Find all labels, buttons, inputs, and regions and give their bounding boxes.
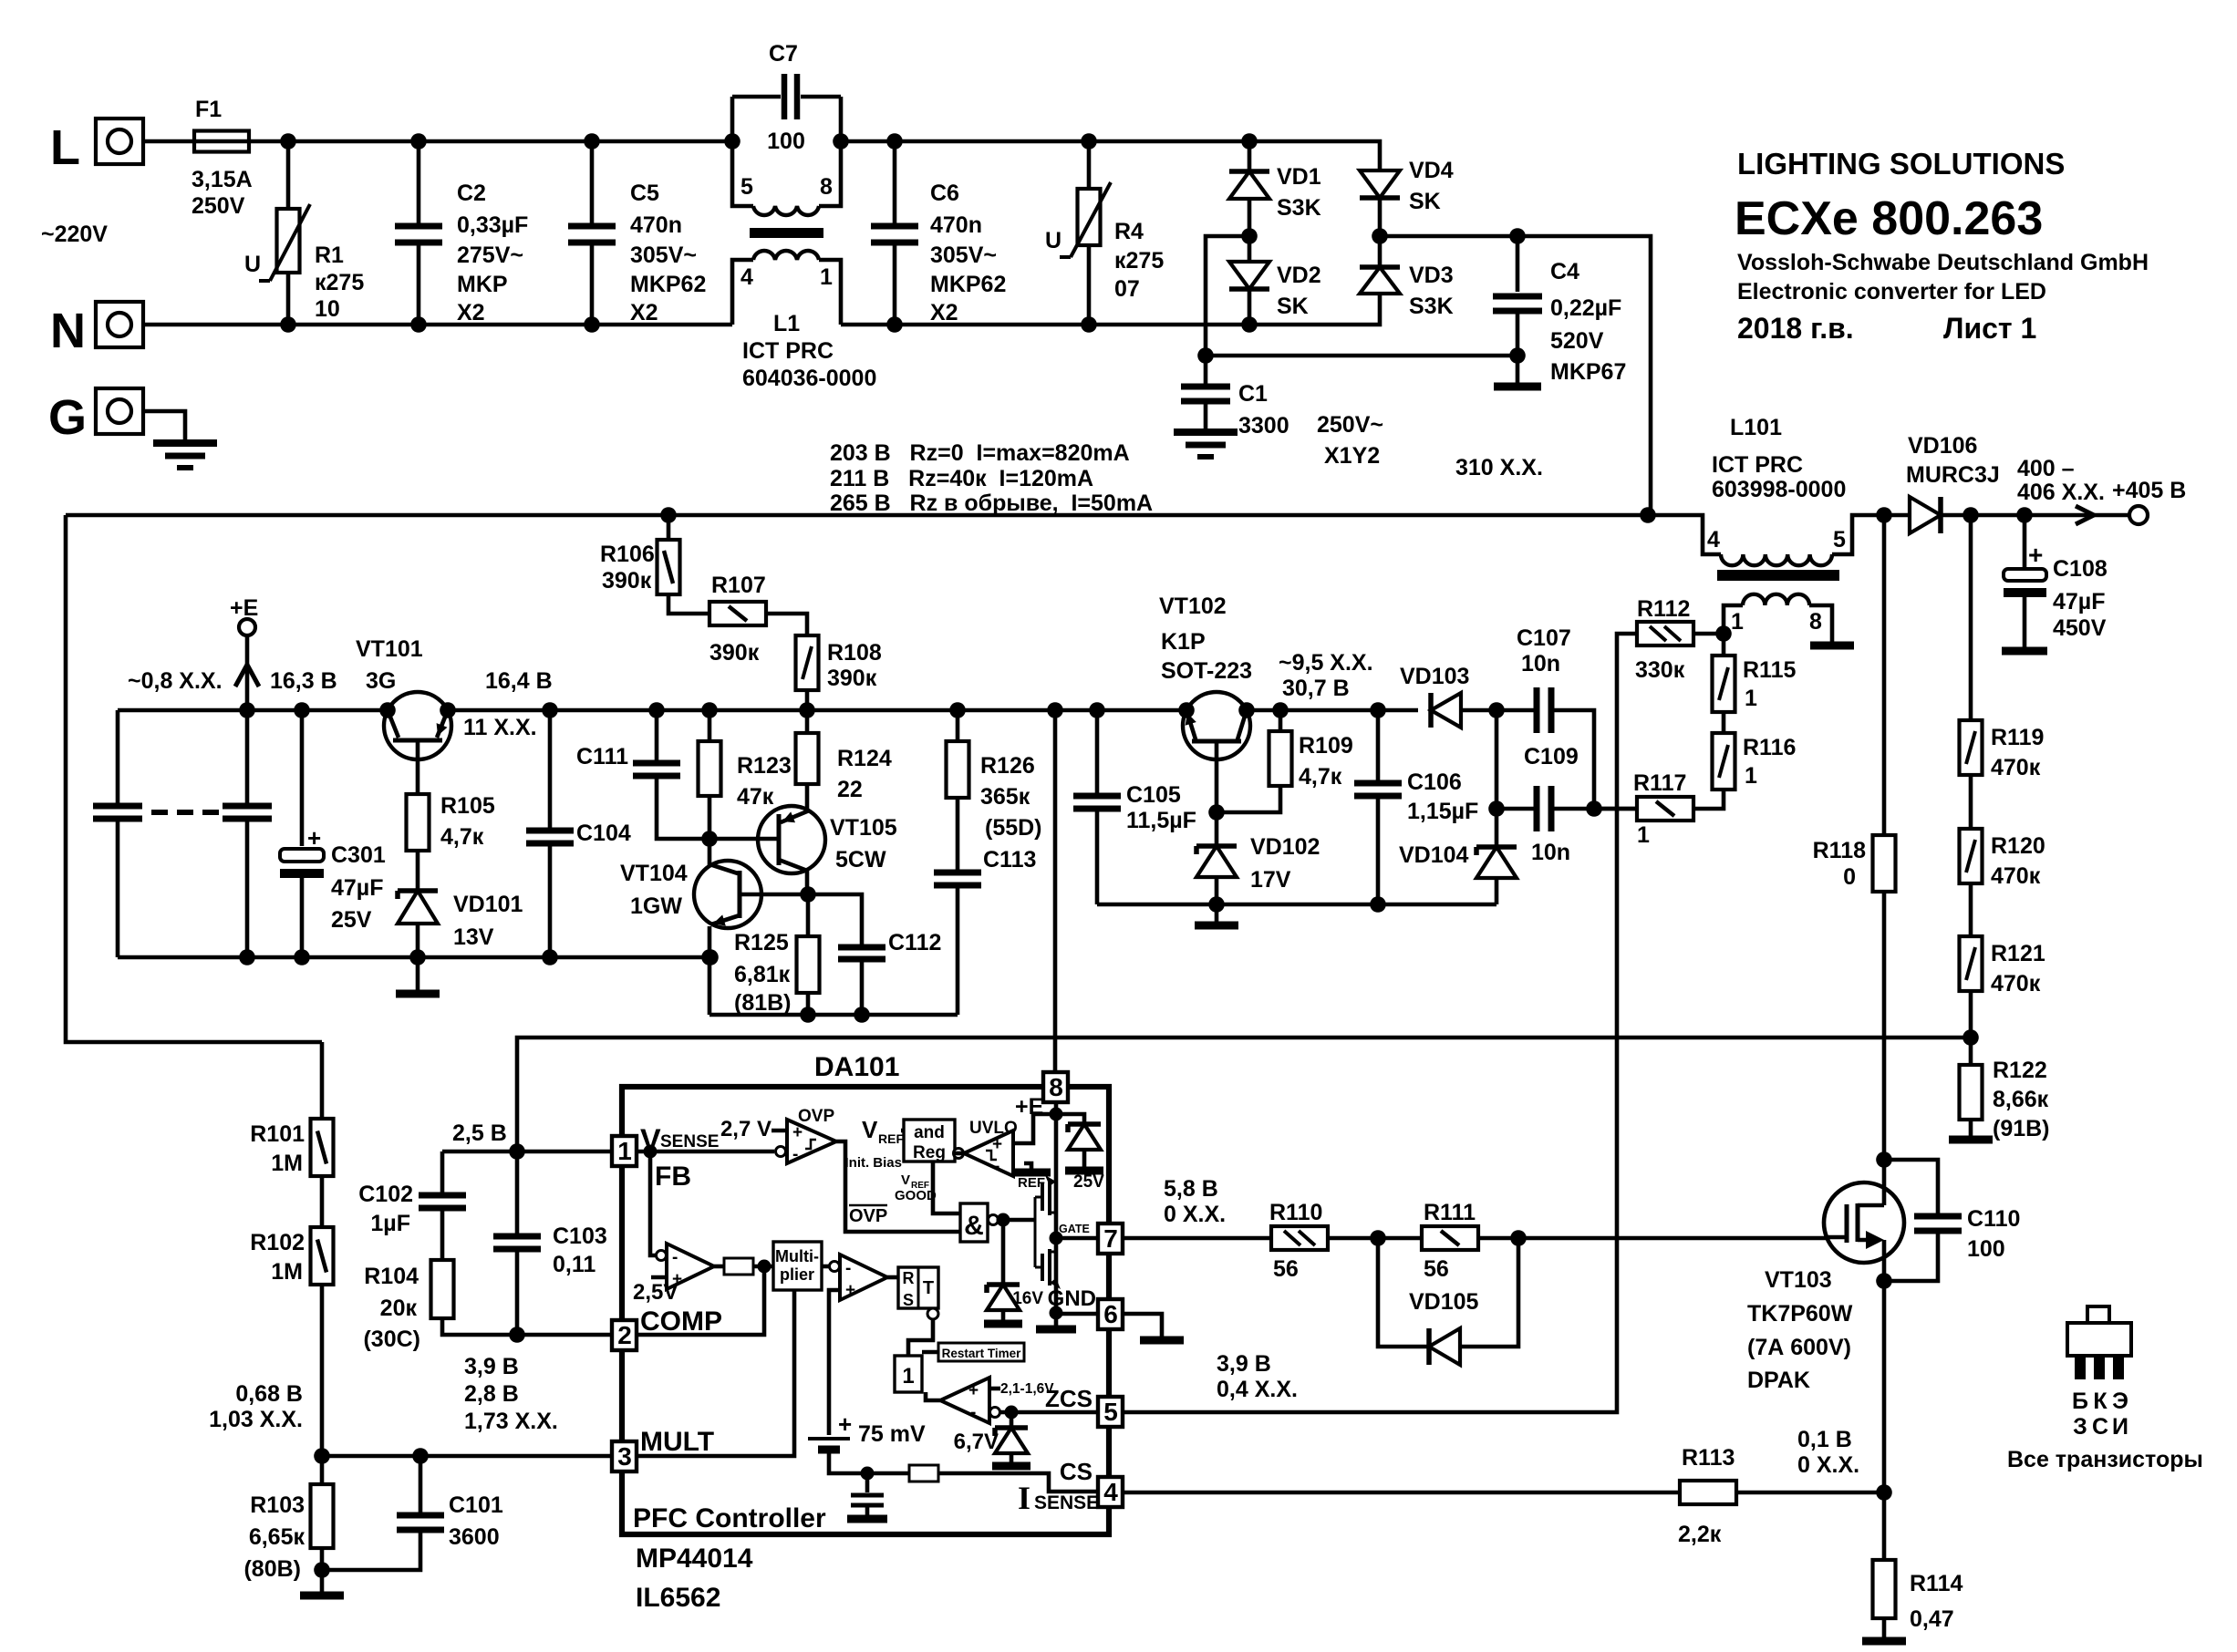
resistor R119 (1960, 720, 1983, 775)
svg-text:Э: Э (2112, 1389, 2128, 1414)
wire UVLO minus to REF (1024, 1163, 1031, 1171)
wire drain into VT103 (1882, 1160, 1887, 1205)
resistor R116 (1713, 733, 1735, 790)
label C108 values (0, 0, 1, 1)
svg-text:VD104: VD104 (1399, 842, 1469, 868)
resistor internal CS (909, 1465, 938, 1482)
svg-text:R125: R125 (734, 930, 789, 955)
svg-text:470n: 470n (930, 212, 982, 238)
svg-text:VT105: VT105 (830, 815, 897, 841)
svg-text:C4: C4 (1550, 259, 1579, 284)
svg-text:-: - (792, 1145, 798, 1164)
label C2 values (0, 0, 1, 1)
svg-text:C104: C104 (576, 821, 631, 846)
svg-text:ZCS: ZCS (1045, 1385, 1093, 1412)
svg-text:Electronic converter for LED: Electronic converter for LED (1737, 279, 2046, 305)
ground bar 6,7V (992, 1462, 1030, 1471)
svg-text:330к: 330к (1635, 657, 1685, 683)
svg-text:V: V (901, 1172, 910, 1188)
junction dots L line (280, 133, 1258, 150)
svg-text:4: 4 (1707, 527, 1720, 552)
junction dot gate side (1510, 1230, 1527, 1246)
svg-text:520V: 520V (1550, 328, 1604, 354)
svg-text:11,5µF: 11,5µF (1126, 808, 1196, 833)
label C110 100 (0, 0, 1, 1)
svg-text:X2: X2 (457, 300, 485, 325)
svg-text:2,7 V: 2,7 V (720, 1117, 772, 1141)
label R107 390k (0, 0, 1, 1)
wire drain branch (1882, 515, 1887, 835)
wire ZCS comp output (926, 1392, 940, 1400)
wire source to sense node (1882, 1281, 1887, 1492)
svg-text:+: + (992, 1135, 1002, 1154)
label R125 values (0, 0, 1, 1)
wire FB node (637, 1150, 774, 1154)
svg-text:5,8 В: 5,8 В (1164, 1176, 1218, 1202)
label C6 values (0, 0, 1, 1)
transistor VT102 (1183, 692, 1250, 759)
resistor R125 (806, 894, 811, 936)
svg-text:Init. Bias: Init. Bias (844, 1155, 902, 1171)
label VREF GOOD (895, 1172, 937, 1203)
svg-text:VD105: VD105 (1409, 1289, 1479, 1315)
terminal +E (239, 619, 255, 635)
junction dot AND out (997, 1213, 1010, 1227)
svg-text:~9,5 X.X.: ~9,5 X.X. (1279, 650, 1373, 676)
svg-text:2: 2 (617, 1321, 632, 1349)
wire R123 to base node (708, 796, 712, 839)
svg-text:13V: 13V (453, 924, 494, 950)
output arrow (2076, 506, 2094, 524)
junction dot R103 bottom (314, 1562, 330, 1578)
svg-text:3G: 3G (366, 668, 396, 694)
svg-text:4,7к: 4,7к (1299, 764, 1342, 790)
resistor R108 (796, 635, 819, 690)
transistor VT105 (758, 806, 825, 873)
label VD1 S3K (0, 0, 1, 1)
svg-text:ICT PRC: ICT PRC (1712, 452, 1803, 478)
svg-text:0,68 В: 0,68 В (235, 1381, 303, 1407)
svg-text:47к: 47к (737, 784, 774, 810)
label Z S I (0, 0, 1, 1)
junction dot aux winding (1715, 625, 1732, 642)
svg-text:100: 100 (1967, 1236, 2005, 1262)
wire bridge plus to C4 (1380, 236, 1517, 292)
svg-text:3600: 3600 (449, 1524, 500, 1550)
label C107 10n (0, 0, 1, 1)
label C102 1uF (0, 0, 1, 1)
svg-text:0,47: 0,47 (1910, 1606, 1954, 1632)
ground bar C4 (1494, 383, 1541, 391)
svg-text:+: + (845, 1281, 855, 1300)
pin 4 square (1098, 1477, 1123, 1507)
label C109 10n (0, 0, 1, 1)
junction dots N line (280, 316, 1258, 333)
label R104 values (0, 0, 1, 1)
wire R117 left (1594, 807, 1637, 811)
junction dots 16V rail (239, 702, 1505, 718)
svg-text:47µF: 47µF (2053, 589, 2105, 614)
svg-text:MKP: MKP (457, 272, 508, 297)
label VT102 K1P SOT-223 (0, 0, 1, 1)
ground bar R122 (1969, 1120, 1973, 1138)
svg-text:1GW: 1GW (630, 893, 682, 919)
capacitor bank cap A (116, 710, 120, 803)
svg-text:6,65к: 6,65к (249, 1524, 306, 1550)
svg-text:IL6562: IL6562 (636, 1583, 720, 1613)
svg-text:6,7V: 6,7V (954, 1430, 999, 1454)
diode VD106 (1910, 497, 1941, 533)
svg-text:(91В): (91В) (1993, 1116, 2050, 1141)
svg-text:4,7к: 4,7к (440, 824, 484, 850)
wire multiplier out to comparator (822, 1265, 829, 1269)
pin 7 square (1098, 1224, 1123, 1254)
svg-text:C101: C101 (449, 1492, 503, 1518)
svg-text:N: N (50, 304, 86, 358)
svg-text:VD103: VD103 (1400, 664, 1469, 689)
svg-text:305V~: 305V~ (930, 243, 997, 268)
resistor R103 (320, 1456, 325, 1484)
svg-text:603998-0000: 603998-0000 (1712, 477, 1846, 502)
wire local bottom (709, 1013, 958, 1017)
svg-text:+E: +E (230, 595, 258, 621)
junction dots VSENSE COMP (509, 1143, 525, 1343)
svg-text:7: 7 (1103, 1224, 1118, 1253)
capacitor C6 (893, 141, 897, 223)
resistor R118 (1873, 835, 1896, 892)
capacitor C111 (655, 710, 659, 760)
label R110 56 (0, 0, 1, 1)
label I SENSE (1018, 1480, 1099, 1516)
junction dots C110 (1876, 1151, 1892, 1289)
capacitor bank cap B (245, 710, 250, 803)
wire DC minus rail (1206, 354, 1517, 358)
junction dot ZCS (1005, 1406, 1019, 1420)
svg-text:SK: SK (1409, 189, 1441, 214)
svg-text:Reg: Reg (913, 1143, 946, 1162)
svg-text:+E: +E (1015, 1094, 1043, 1120)
svg-text:X1Y2: X1Y2 (1324, 443, 1380, 469)
resistor R117 (1637, 797, 1693, 821)
svg-text:1,15µF: 1,15µF (1407, 799, 1478, 824)
svg-text:L: L (50, 120, 80, 175)
wire C105 bottom rail (1097, 903, 1497, 907)
op-amp ZCS comparator (940, 1378, 989, 1423)
svg-text:DA101: DA101 (814, 1052, 899, 1082)
svg-text:-: - (672, 1248, 678, 1267)
svg-text:and: and (914, 1123, 945, 1142)
svg-text:VT101: VT101 (356, 636, 423, 662)
svg-text:R4: R4 (1114, 219, 1144, 244)
wire left feed down (66, 515, 322, 1042)
svg-text:C112: C112 (888, 930, 941, 955)
svg-text:C6: C6 (930, 181, 959, 206)
svg-text:-: - (970, 1403, 976, 1422)
svg-text:R105: R105 (440, 793, 495, 819)
svg-text:8: 8 (820, 174, 833, 200)
ground bar R103 (300, 1592, 344, 1600)
svg-text:к275: к275 (1114, 248, 1164, 274)
svg-text:Multi-: Multi- (775, 1247, 819, 1265)
transistor VT101 (384, 692, 451, 759)
svg-text:R122: R122 (1993, 1058, 2047, 1083)
svg-text:Все транзисторы: Все транзисторы (2007, 1447, 2203, 1472)
wire R101-R102 (320, 1176, 325, 1227)
svg-text:Vossloh-Schwabe Deutschland Gm: Vossloh-Schwabe Deutschland GmbH (1737, 250, 2149, 275)
junction dot feedback node (1963, 1029, 1979, 1046)
and-Reg box (904, 1120, 955, 1162)
label C106 values (0, 0, 1, 1)
label R118 0 (0, 0, 1, 1)
resistor R102 (311, 1227, 334, 1285)
svg-text:SENSE: SENSE (660, 1132, 719, 1151)
svg-text:GOOD: GOOD (895, 1188, 937, 1203)
ground bar pin6 (1140, 1337, 1184, 1345)
svg-text:17V: 17V (1250, 867, 1291, 893)
wire VSENSE row (442, 1150, 612, 1154)
svg-text:(7А 600V): (7А 600V) (1747, 1335, 1851, 1360)
title 2018 and sheet (0, 0, 1, 1)
diode VD103 (1431, 693, 1461, 728)
capacitor C101 (419, 1456, 423, 1513)
wire VT103 channel (1882, 1240, 1887, 1281)
svg-text:07: 07 (1114, 276, 1140, 302)
label R103 values (0, 0, 1, 1)
AND gate (960, 1203, 988, 1242)
capacitor C107 (1537, 687, 1551, 733)
svg-text:1: 1 (1637, 822, 1650, 848)
svg-text:2018 г.в.: 2018 г.в. (1737, 312, 1854, 345)
svg-text:C1: C1 (1238, 381, 1268, 407)
svg-text:COMP: COMP (640, 1306, 722, 1337)
svg-text:3,9 В: 3,9 В (1217, 1351, 1271, 1377)
wire RS to one-shot (908, 1319, 933, 1356)
svg-text:GATE: GATE (1059, 1223, 1090, 1235)
label R108 390k (0, 0, 1, 1)
svg-text:R101: R101 (250, 1121, 305, 1147)
choke L1 core (750, 228, 823, 238)
resistor R120 (1960, 829, 1983, 883)
label R105 4,7k (0, 0, 1, 1)
svg-text:5CW: 5CW (835, 847, 886, 872)
svg-text:L101: L101 (1730, 415, 1782, 440)
svg-text:MKP67: MKP67 (1550, 359, 1626, 385)
svg-text:(30С): (30С) (363, 1327, 420, 1352)
svg-text:L1: L1 (773, 311, 800, 336)
driver MOSFET lower (1035, 1220, 1061, 1289)
resistor R113 (1680, 1481, 1736, 1504)
terminal N (96, 302, 143, 347)
label VD101 13V (0, 0, 1, 1)
resistor R107 (709, 602, 766, 625)
svg-text:TK7P60W: TK7P60W (1747, 1301, 1853, 1327)
svg-text:UVLO: UVLO (969, 1119, 1018, 1138)
choke L1 winding 4-1 (732, 260, 753, 325)
pin 8 square (1043, 1072, 1068, 1102)
svg-text:20к: 20к (380, 1296, 418, 1321)
transformer L101 core (1717, 570, 1839, 581)
svg-text:0: 0 (1843, 864, 1856, 890)
svg-text:R: R (903, 1269, 915, 1287)
svg-text:2,5V: 2,5V (633, 1280, 678, 1305)
wire G to ground (143, 411, 185, 441)
wire ZCS plus stub (989, 1387, 1000, 1391)
svg-text:3,9 В: 3,9 В (464, 1354, 519, 1379)
label B K E (0, 0, 1, 1)
svg-text:plier: plier (780, 1265, 814, 1284)
svg-text:S: S (903, 1291, 914, 1309)
label OVP bar (849, 1205, 887, 1226)
diode VD1 (1248, 141, 1252, 170)
svg-text:VD4: VD4 (1409, 158, 1454, 183)
capacitor C301 (300, 710, 305, 846)
svg-text:470к: 470к (1991, 971, 2041, 996)
ground earth symbol G (153, 443, 217, 468)
wire OVP output (836, 1141, 960, 1232)
wire rail to L101 pin4 (1648, 515, 1721, 554)
label VT105 5CW (0, 0, 1, 1)
svg-text:(55D): (55D) (985, 815, 1042, 841)
ground bar R114 (1862, 1637, 1906, 1646)
terminal +405V (2129, 506, 2148, 524)
svg-text:275V~: 275V~ (457, 243, 523, 268)
svg-text:R104: R104 (364, 1264, 419, 1289)
svg-text:VD1: VD1 (1277, 164, 1321, 190)
svg-text:0,4 X.X.: 0,4 X.X. (1217, 1377, 1298, 1402)
wire +E with arrow (245, 635, 250, 710)
pin 6 square (1098, 1299, 1123, 1329)
wire R120-R121 (1969, 883, 1973, 936)
svg-text:16,4 В: 16,4 В (485, 668, 553, 694)
svg-text:R111: R111 (1424, 1200, 1476, 1225)
svg-text:MKP62: MKP62 (930, 272, 1006, 297)
svg-text:R119: R119 (1991, 725, 2044, 750)
svg-text:250V: 250V (192, 193, 245, 219)
label ICT PRC 604036-0000 (0, 0, 1, 1)
svg-text:GND: GND (1048, 1286, 1096, 1311)
svg-text:MURC3J: MURC3J (1906, 462, 2000, 488)
svg-text:305V~: 305V~ (630, 243, 697, 268)
wire R115 R116 (1722, 712, 1726, 733)
svg-text:T: T (923, 1278, 934, 1298)
svg-text:10n: 10n (1531, 840, 1570, 865)
svg-text:+: + (792, 1123, 803, 1142)
diode VD2 (1248, 236, 1252, 262)
svg-text:+405 В: +405 В (2112, 478, 2186, 503)
svg-text:3300: 3300 (1238, 413, 1289, 439)
wire multiplier to MULT pin (637, 1290, 794, 1456)
restart timer box (938, 1343, 1024, 1361)
svg-text:VD102: VD102 (1250, 834, 1320, 860)
svg-text:8: 8 (1049, 1073, 1063, 1101)
resistor R105 (407, 794, 430, 851)
label + 75 mV (838, 1410, 926, 1447)
driver MOSFET upper (1035, 1175, 1056, 1220)
svg-text:I: I (1018, 1480, 1030, 1516)
wire N line right part (841, 294, 1380, 325)
svg-text:406 X.X.: 406 X.X. (2017, 480, 2105, 505)
wire R111 to gate (1478, 1236, 1826, 1241)
capacitor C110 (1884, 1160, 1938, 1213)
svg-text:1M: 1M (271, 1259, 303, 1285)
svg-text:VD101: VD101 (453, 892, 523, 917)
label R122 values (0, 0, 1, 1)
resistor R109 (1279, 710, 1283, 731)
resistor R124 (805, 710, 810, 733)
svg-text:470n: 470n (630, 212, 682, 238)
diode VD3 (1378, 236, 1383, 266)
svg-text:И: И (2112, 1414, 2128, 1440)
svg-text:203 В Rz=0 I=max=820mA: 203 В Rz=0 I=max=820mA (830, 440, 1130, 466)
svg-text:R113: R113 (1682, 1445, 1735, 1471)
label R124 22 (0, 0, 1, 1)
svg-text:0,33µF: 0,33µF (457, 212, 528, 238)
svg-text:2,2к: 2,2к (1678, 1522, 1722, 1547)
label VREF (862, 1116, 904, 1146)
svg-text:1: 1 (1731, 609, 1744, 635)
wire pin4 CS to R113 (1123, 1491, 1680, 1495)
label R126 values (0, 0, 1, 1)
resistor R101 (320, 1042, 325, 1119)
label VD2 SK (0, 0, 1, 1)
svg-text:C106: C106 (1407, 769, 1462, 795)
wire comparator to RS (887, 1275, 898, 1280)
svg-text:FB: FB (655, 1162, 691, 1192)
svg-text:U: U (1045, 228, 1062, 253)
label R116 1 (0, 0, 1, 1)
svg-text:к275: к275 (315, 270, 364, 295)
capacitor C108 electrolytic (2023, 515, 2027, 568)
wire COMP pin connection (637, 1266, 764, 1335)
svg-text:VT102: VT102 (1159, 594, 1227, 619)
wire R124 to VT105 (805, 784, 810, 810)
label 0,1 В 0 X.X. (0, 0, 1, 1)
capacitor C4 (1493, 296, 1542, 311)
junction dots local bottom (800, 1007, 870, 1023)
junction dot comp node (758, 1260, 772, 1274)
resistor R126 (956, 710, 960, 741)
junction dots MULT row (314, 1448, 429, 1464)
svg-text:47µF: 47µF (331, 875, 383, 901)
label 9,5 X.X. 30,7 В (0, 0, 1, 1)
svg-text:VD2: VD2 (1277, 263, 1321, 288)
svg-text:X2: X2 (930, 300, 958, 325)
transformer L101 primary (1721, 554, 1832, 565)
svg-text:C109: C109 (1524, 744, 1579, 769)
capacitor internal CS filter (865, 1473, 870, 1492)
junction dots VT104 node (701, 886, 816, 965)
diode VD4 (1360, 170, 1400, 198)
common-mode choke L1 winding 5-8 (732, 97, 753, 206)
wire R103 to ground (320, 1548, 325, 1594)
wire error amp plus stub (651, 1275, 667, 1280)
svg-text:6: 6 (1103, 1300, 1118, 1328)
junction dot VT102 base (1208, 804, 1225, 821)
wire battery to CS (829, 1450, 909, 1473)
wire R118 to drain (1882, 892, 1887, 1160)
label F1 values (0, 0, 1, 1)
junction dot FB (644, 1145, 658, 1159)
label R121 470k (0, 0, 1, 1)
wire L line right of choke (841, 141, 1380, 170)
svg-text:1µF: 1µF (370, 1211, 410, 1236)
svg-text:11 X.X.: 11 X.X. (463, 715, 537, 740)
wire UVLO plus to +E (1013, 1114, 1056, 1143)
junction dots C105 bottom (1208, 896, 1386, 913)
wire VREF stub (901, 1129, 904, 1133)
label 5,8 В 0 X.X. (0, 0, 1, 1)
wire R105 to VD101 (416, 851, 420, 890)
